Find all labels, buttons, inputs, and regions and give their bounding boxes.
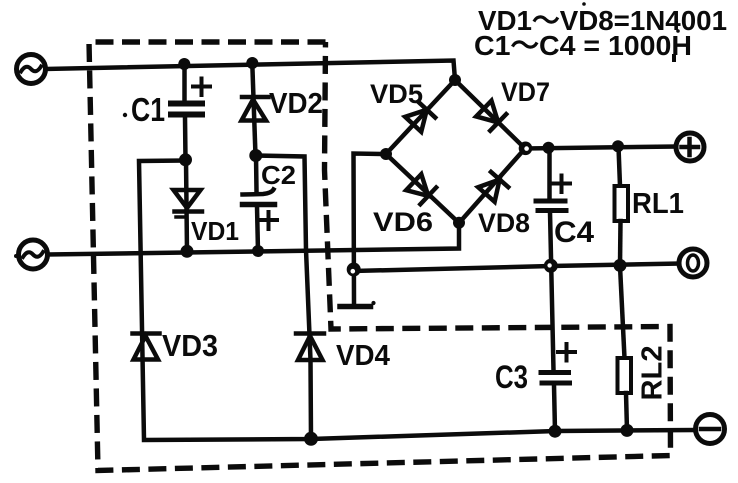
svg-text:VD1: VD1 <box>191 216 239 246</box>
svg-text:VD6: VD6 <box>373 207 433 237</box>
svg-text:C1～C4 = 1000H: C1～C4 = 1000H <box>474 30 692 61</box>
svg-text:RL2: RL2 <box>637 346 669 401</box>
svg-text:C3: C3 <box>495 359 528 395</box>
svg-text:C4: C4 <box>554 216 594 249</box>
svg-text:C2: C2 <box>261 160 296 190</box>
svg-text:VD3: VD3 <box>162 328 218 363</box>
svg-text:VD8: VD8 <box>478 208 530 238</box>
svg-text:C1: C1 <box>131 91 165 128</box>
svg-text:VD7: VD7 <box>501 77 550 107</box>
svg-text:VD4: VD4 <box>336 340 390 372</box>
svg-text:VD5: VD5 <box>370 79 423 109</box>
svg-text:RL1: RL1 <box>632 188 684 220</box>
svg-text:VD2: VD2 <box>269 88 323 120</box>
